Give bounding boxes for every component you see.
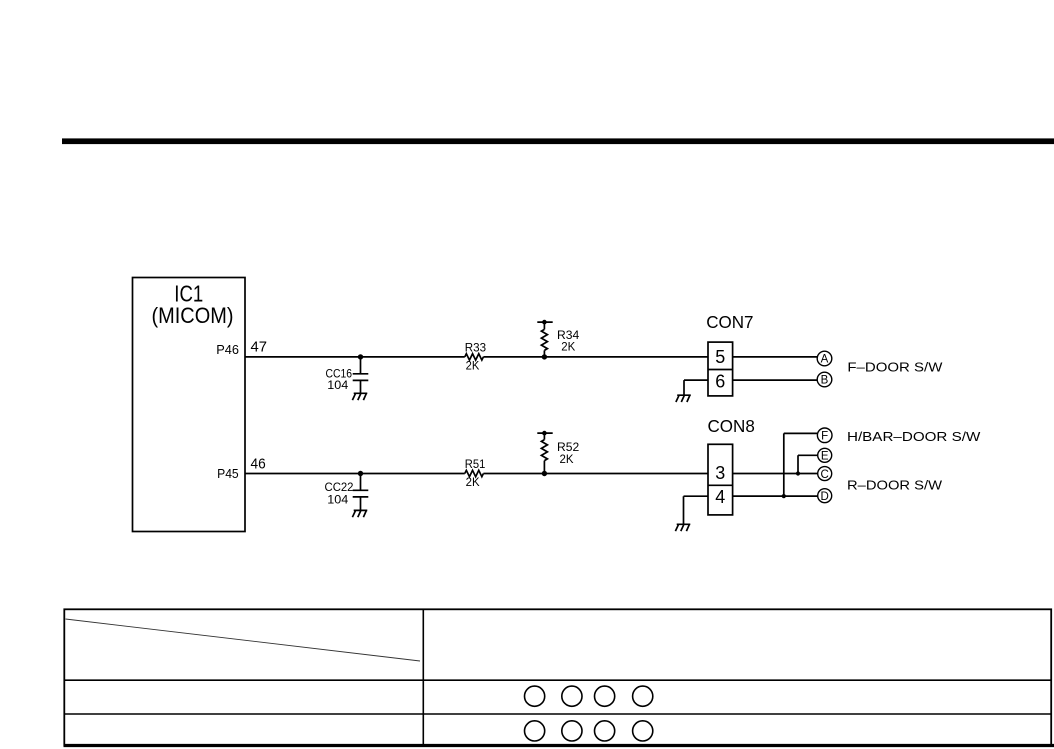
svg-text:P45: P45 <box>217 466 239 481</box>
svg-text:F–DOOR S/W: F–DOOR S/W <box>847 359 943 374</box>
svg-text:2K: 2K <box>560 452 574 466</box>
svg-text:E: E <box>821 451 829 463</box>
svg-text:P46: P46 <box>216 342 239 357</box>
svg-text:2K: 2K <box>466 358 480 372</box>
svg-text:47: 47 <box>251 339 268 355</box>
svg-text:104: 104 <box>327 492 348 506</box>
svg-text:2K: 2K <box>466 475 480 489</box>
svg-text:C: C <box>821 469 829 481</box>
svg-text:R51: R51 <box>465 457 486 471</box>
svg-text:A: A <box>821 354 829 366</box>
svg-text:2K: 2K <box>561 339 575 353</box>
svg-text:104: 104 <box>327 378 348 392</box>
svg-text:F: F <box>821 431 828 443</box>
svg-text:R–DOOR S/W: R–DOOR S/W <box>847 477 943 492</box>
svg-text:(MICOM): (MICOM) <box>152 303 234 328</box>
svg-text:3: 3 <box>715 462 725 483</box>
svg-text:D: D <box>821 491 829 503</box>
svg-text:CON8: CON8 <box>708 416 755 436</box>
svg-text:R33: R33 <box>465 340 487 354</box>
svg-text:6: 6 <box>715 370 725 391</box>
svg-text:5: 5 <box>715 346 725 367</box>
svg-text:B: B <box>821 375 829 387</box>
svg-text:46: 46 <box>251 457 266 473</box>
svg-text:4: 4 <box>715 486 725 507</box>
svg-text:H/BAR–DOOR S/W: H/BAR–DOOR S/W <box>847 429 981 444</box>
svg-text:CON7: CON7 <box>706 312 753 332</box>
